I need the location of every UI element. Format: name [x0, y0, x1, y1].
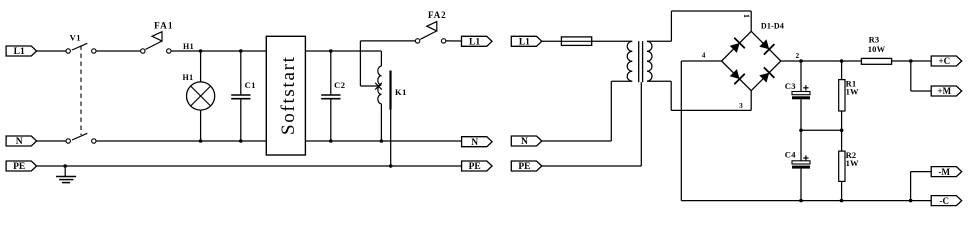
label V1: [70, 33, 81, 43]
switch V1 pole 2 (N): [66, 133, 96, 143]
label R3 value 10W: [868, 44, 886, 54]
label R1: [846, 79, 857, 89]
fuse FU1: [561, 37, 591, 46]
wire N rail left of softstart: [96, 140, 266, 142]
junction C2 top: [329, 49, 333, 53]
capacitor C1: [231, 51, 250, 141]
ground (PE earth symbol): [56, 164, 76, 182]
pin 2 label: [796, 52, 800, 60]
svg-text:Softstart: Softstart: [278, 55, 299, 135]
resistor R2: [839, 130, 845, 200]
label R2: [846, 150, 857, 160]
transformer core: [639, 41, 643, 82]
svg-text:L1: L1: [519, 38, 530, 48]
label C3: [785, 81, 796, 91]
svg-text:R3: R3: [869, 35, 880, 45]
label C4: [785, 150, 796, 160]
pin 4 label: [702, 52, 706, 60]
svg-text:H1: H1: [182, 73, 193, 82]
wire secondary bottom to bridge node 3: [647, 81, 751, 110]
svg-text:4: 4: [702, 52, 706, 60]
junction C4 bottom: [799, 199, 803, 203]
circuit breaker FA1: [141, 32, 171, 54]
wire node 4 to bottom rail: [681, 61, 910, 201]
terminal flag +M: [931, 86, 962, 96]
svg-text:-C: -C: [940, 196, 950, 206]
svg-text:N: N: [521, 137, 528, 147]
svg-text:PE: PE: [469, 162, 481, 172]
wire N rail right of softstart: [305, 140, 461, 142]
junction core-PE rail: [389, 164, 393, 168]
wire to +M: [911, 61, 931, 91]
wire PE rail: [36, 165, 462, 167]
terminal flag L1 (mains input): [6, 46, 36, 57]
junction C1 bottom: [239, 139, 243, 143]
svg-text:C4: C4: [785, 150, 796, 160]
svg-text:PE: PE: [13, 162, 25, 172]
svg-text:L1: L1: [469, 38, 480, 48]
terminal flag L1 (output): [462, 36, 493, 47]
junction C2 bottom: [329, 139, 333, 143]
svg-text:N: N: [16, 137, 23, 147]
node H1 (junction top rail at lamp): [199, 49, 203, 53]
terminal flag PE (output): [462, 161, 493, 172]
diode D4 (lower right): [759, 67, 774, 82]
wire N to transformer primary: [541, 81, 632, 141]
switch V1 pole 1 (L): [66, 43, 96, 53]
diode D2 (upper right): [759, 39, 774, 54]
transformer primary winding: [627, 41, 632, 81]
terminal flag -C: [931, 196, 962, 206]
svg-text:-M: -M: [939, 167, 951, 177]
svg-text:C3: C3: [785, 81, 796, 91]
wire riser tap to FA2 line: [360, 41, 415, 86]
svg-text:10W: 10W: [868, 44, 886, 54]
pin 1 label: [742, 14, 751, 18]
terminal flag PE (mains input): [6, 161, 36, 172]
svg-text:C2: C2: [334, 80, 345, 90]
label H1 (lamp): [182, 73, 193, 82]
label H1 (net label): [183, 42, 194, 51]
wire L1 to fuse: [541, 40, 632, 42]
pin 3 label: [739, 102, 743, 110]
wire V1 to FA1: [96, 50, 141, 52]
label FA2: [428, 10, 447, 20]
label K1: [395, 87, 407, 97]
wire secondary top to bridge node 1: [647, 11, 751, 41]
svg-text:1: 1: [742, 14, 751, 18]
svg-text:D1-D4: D1-D4: [761, 21, 784, 30]
resistor R1: [839, 61, 845, 130]
junction C3 top: [799, 59, 803, 63]
junction R1-R2 mid: [840, 129, 844, 133]
wire R3 to +C: [892, 60, 932, 62]
svg-text:K1: K1: [395, 87, 407, 97]
svg-text:+M: +M: [937, 86, 951, 96]
terminal flag N (output): [462, 137, 493, 148]
svg-text:1W: 1W: [846, 158, 859, 168]
svg-text:C1: C1: [245, 80, 256, 90]
transformer secondary winding: [647, 41, 652, 81]
terminal flag N (supply input): [511, 136, 542, 147]
relay K1 core bar: [389, 71, 391, 110]
svg-text:L1: L1: [14, 47, 25, 57]
junction C3-C4 mid: [799, 129, 803, 133]
svg-text:3: 3: [739, 102, 743, 110]
wire to -M: [911, 172, 932, 201]
diode D1 (upper left): [730, 38, 745, 53]
wire node 2 rail: [781, 60, 862, 62]
terminal flag PE (supply input): [511, 161, 542, 172]
svg-text:FA2: FA2: [428, 10, 447, 20]
svg-text:PE: PE: [518, 162, 530, 172]
label D1-D4: [761, 21, 784, 30]
label C1: [245, 80, 256, 90]
terminal flag -M: [931, 167, 962, 177]
mechanical link V1 (dashed): [80, 46, 82, 136]
junction lamp-N rail: [199, 139, 203, 143]
capacitor C3 (electrolytic): [792, 61, 810, 130]
junction C1 top: [239, 49, 243, 53]
junction R1 top: [840, 59, 844, 63]
label R2 value 1W: [846, 158, 859, 168]
terminal flag +C: [931, 56, 962, 66]
junction R2 bottom: [840, 199, 844, 203]
wire tap to relay coil (X mark): [360, 83, 381, 90]
terminal flag N (mains input): [6, 136, 36, 147]
bridge diamond wires: [722, 31, 781, 90]
svg-text:H1: H1: [183, 42, 194, 51]
lamp H1: [187, 51, 215, 141]
label R1 value 1W: [846, 87, 859, 97]
svg-text:1W: 1W: [846, 87, 859, 97]
svg-text:+C: +C: [938, 56, 950, 66]
label C2: [334, 80, 345, 90]
softstart module box: [266, 36, 305, 155]
wire L1 to switch V1: [36, 50, 67, 52]
wire core bar to PE: [390, 110, 392, 166]
svg-text:2: 2: [796, 52, 800, 60]
label R3: [869, 35, 880, 45]
capacitor C2: [321, 51, 340, 141]
wire to -C: [911, 200, 932, 202]
wire PE to transformer core: [541, 82, 642, 166]
wire FA2 to L1 out: [446, 40, 462, 42]
wire mid link C3-R1: [801, 129, 842, 131]
terminal flag L1 (supply input): [511, 36, 542, 47]
circuit breaker FA2: [415, 22, 445, 44]
polarity + C4: [803, 155, 808, 160]
svg-text:V1: V1: [70, 33, 81, 43]
svg-text:FA1: FA1: [154, 20, 174, 30]
diode D3 (lower left): [730, 69, 745, 84]
wire N to switch V1 pole 2: [36, 140, 67, 142]
relay K1 coil: [378, 51, 382, 141]
junction coil-N rail: [380, 139, 384, 143]
polarity + C3: [803, 85, 808, 90]
wire FA1 to softstart box: [171, 50, 266, 52]
svg-text:N: N: [471, 138, 478, 148]
junction +C/+M: [909, 59, 913, 63]
capacitor C4 (electrolytic): [792, 130, 810, 200]
label FA1: [154, 20, 174, 30]
wire softstart to C2/relay (top): [305, 50, 381, 52]
junction -C/-M: [909, 199, 913, 203]
resistor R3: [861, 58, 891, 64]
